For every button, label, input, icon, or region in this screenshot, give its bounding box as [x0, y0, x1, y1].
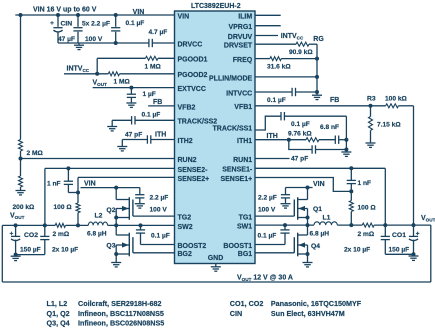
- wire VPRG1 stub: [255, 25, 281, 27]
- svg-text:6.8 µH: 6.8 µH: [310, 231, 330, 238]
- label 2 Mohm: [27, 150, 44, 157]
- svg-text:Q2: Q2: [106, 207, 115, 214]
- transistor Q3 (bottom MOSFET left phase): [114, 225, 133, 262]
- svg-text:TRACK/SS1: TRACK/SS1: [213, 125, 253, 132]
- junction CO2: [14, 223, 18, 227]
- label 1 uF: [143, 91, 156, 98]
- label 1 Mohm PGOOD2: [114, 78, 131, 85]
- label RG: [313, 36, 324, 43]
- wire PLLIN/MODE: [255, 76, 317, 78]
- svg-text:6.8 µH: 6.8 µH: [87, 231, 107, 238]
- ground right output caps: [409, 256, 419, 260]
- svg-text:1 µF: 1 µF: [143, 91, 156, 98]
- capacitor 0.1uF BOOST2 lead: [140, 225, 142, 244]
- junction VIN right Q1 drain: [306, 186, 310, 190]
- junction SW1 boost cap: [283, 223, 287, 227]
- label note CIN part: [271, 309, 345, 318]
- resistor 100 ohm right lead: [350, 191, 352, 200]
- label 9.76 kohm: [288, 130, 312, 137]
- svg-text:9.76 kΩ: 9.76 kΩ: [288, 130, 312, 137]
- resistor 1 Mohm PGOOD1: [146, 56, 159, 60]
- junction on VIN rail at 0.1uF: [114, 13, 118, 17]
- junction EXTVCC cap: [129, 86, 133, 90]
- svg-text:BG2: BG2: [178, 251, 193, 258]
- svg-text:Infineon, BSC117N08NS5: Infineon, BSC117N08NS5: [78, 309, 164, 318]
- svg-text:BOOST1: BOOST1: [223, 243, 252, 250]
- svg-text:1 MΩ: 1 MΩ: [114, 78, 131, 85]
- svg-text:Sun Elect, 63HVH47M: Sun Elect, 63HVH47M: [271, 309, 345, 318]
- capacitor 2.2uF left lead: [139, 188, 141, 204]
- label 90.9 kohm: [289, 49, 313, 56]
- resistor 1 Mohm PGOOD2: [108, 72, 119, 76]
- label L2 value 6.8 uH: [87, 231, 107, 238]
- svg-text:VIN 16 V up to 60 V: VIN 16 V up to 60 V: [33, 7, 97, 14]
- ground Q3 source: [111, 263, 121, 267]
- wire SENSE1- long: [255, 167, 385, 169]
- label CIN value 47 uF: [58, 36, 75, 43]
- svg-text:47 pF: 47 pF: [291, 155, 308, 162]
- label CO1: [392, 232, 406, 239]
- label VOUT net EXTVCC: [93, 79, 108, 87]
- wire ITH1: [255, 139, 306, 141]
- junction SENSE1 filter: [349, 189, 353, 193]
- label VOUT 12V 30A: [237, 274, 293, 282]
- label note Q1 Q2 part: [78, 309, 164, 318]
- label note CO1 CO2: [230, 299, 264, 308]
- junction VIN left Q2 drain: [114, 186, 118, 190]
- ground divider: [16, 191, 26, 195]
- svg-text:2x 10 µF: 2x 10 µF: [52, 246, 78, 253]
- svg-text:2 mΩ: 2 mΩ: [358, 231, 375, 238]
- transistor Q2 (top MOSFET left phase): [114, 197, 133, 225]
- svg-text:90.9 kΩ: 90.9 kΩ: [289, 49, 313, 56]
- resistor 9.76 kohm: [306, 138, 319, 142]
- junction ITH1 node: [287, 138, 291, 142]
- pin label VIN: [178, 13, 190, 20]
- label 200 kohm: [13, 204, 36, 211]
- capacitor 0.1uF BOOST1 lead: [284, 225, 286, 244]
- resistor R3 100 kohm: [386, 104, 399, 108]
- wire TRACK/SS2 gnd: [111, 120, 113, 126]
- wire DRVSET: [255, 43, 317, 45]
- wire sense to output corner: [374, 224, 431, 226]
- wire SW2: [108, 224, 175, 226]
- junction rail PLLIN: [315, 75, 319, 79]
- svg-text:4.7 µF: 4.7 µF: [149, 29, 168, 36]
- label L1: [323, 215, 331, 222]
- label CO2 plus: [10, 230, 14, 237]
- svg-text:2 MΩ: 2 MΩ: [27, 150, 44, 157]
- pin label RUN1: [233, 157, 252, 164]
- label 0.1 uF BOOST1: [258, 233, 277, 240]
- junction SW2 Q2 source: [114, 223, 118, 227]
- svg-text:100 Ω: 100 Ω: [54, 204, 73, 211]
- label note L1 L2: [47, 299, 68, 308]
- capacitor 1uF EXTVCC lead: [130, 88, 132, 103]
- wire SENSE1- down to output: [384, 168, 386, 225]
- pin label BG1: [238, 251, 253, 258]
- resistor 2 mohm right sense: [362, 223, 374, 227]
- label VIN 16 V up to 60 V: [33, 7, 97, 14]
- label note Q3 Q4: [47, 319, 70, 328]
- pin label SW2: [178, 224, 193, 231]
- svg-text:150 µF: 150 µF: [20, 246, 41, 253]
- capacitor 5x 2.2uF plates: [73, 28, 82, 31]
- svg-text:+: +: [10, 230, 14, 237]
- svg-text:INTVCC: INTVCC: [226, 90, 252, 97]
- wire output bus right drop: [430, 225, 432, 282]
- wire L1 to sense: [337, 224, 362, 226]
- label L2: [95, 212, 103, 219]
- junction RUN2 node: [19, 157, 23, 161]
- wire 100 ohm left to SW node: [77, 213, 79, 226]
- svg-text:VIN: VIN: [84, 181, 96, 188]
- junction 100 ohm right bottom: [349, 223, 353, 227]
- label note CO1 CO2 part: [271, 299, 362, 308]
- label Q1: [313, 206, 322, 213]
- svg-text:31.6 kΩ: 31.6 kΩ: [267, 63, 291, 70]
- wire Q1 drain: [307, 188, 309, 200]
- svg-text:FB: FB: [153, 99, 162, 106]
- svg-text:VIN: VIN: [313, 181, 325, 188]
- capacitor 2x10uF right plates: [381, 236, 390, 239]
- capacitor 2.2uF left plates: [135, 195, 144, 198]
- wire ITH2 cap: [122, 139, 174, 141]
- wire rail gnd stem: [316, 92, 318, 95]
- junction SENSE2 filter: [76, 191, 80, 195]
- label 0.1 uF VIN: [126, 20, 145, 27]
- capacitor 1uF EXTVCC plates: [127, 94, 136, 97]
- pin label EXTVCC: [178, 86, 206, 93]
- wire VIN left stage: [81, 187, 140, 189]
- label 4.7 uF: [149, 29, 168, 36]
- pin label BOOST1: [223, 243, 252, 250]
- label 100 V left: [150, 207, 168, 214]
- svg-text:+: +: [50, 20, 54, 27]
- label CO1 plus: [416, 230, 420, 237]
- wire PGOOD1 down to INTVCC stub: [96, 58, 98, 74]
- svg-text:0.1 µF: 0.1 µF: [258, 233, 277, 240]
- svg-text:L2: L2: [95, 212, 103, 219]
- svg-text:VPRG1: VPRG1: [228, 24, 252, 31]
- label 0.1 uF TRACK/SS1: [291, 121, 310, 128]
- wire ITH2 gnd: [121, 140, 123, 147]
- label VIN net left stage: [84, 181, 96, 188]
- ground EXTVCC cap: [126, 103, 136, 107]
- pin label SENSE1-: [222, 167, 253, 174]
- ground input bus: [74, 43, 84, 50]
- svg-text:Q1, Q2: Q1, Q2: [47, 309, 70, 318]
- svg-text:BOOST2: BOOST2: [178, 243, 207, 250]
- label 1 nF left: [47, 180, 61, 187]
- capacitor 0.1uF BOOST1 plates: [280, 230, 289, 233]
- transistor Q4 (bottom MOSFET right phase): [294, 225, 309, 262]
- capacitor 2x10uF left lead: [44, 225, 46, 254]
- pin label VFB2: [178, 104, 196, 111]
- resistor 2 Mohm: [19, 140, 23, 152]
- label note Q3 Q4 part: [78, 319, 164, 328]
- wire TRACK/SS2 cap: [112, 119, 174, 121]
- svg-text:Coilcraft, SER2918H-682: Coilcraft, SER2918H-682: [78, 299, 162, 308]
- svg-text:TG1: TG1: [239, 215, 253, 222]
- label ITH net right: [267, 133, 278, 140]
- capacitor 0.1uF VIN plates: [111, 28, 120, 31]
- capacitor 6.8nF: [335, 136, 338, 144]
- wire SENSE2+ down: [77, 177, 79, 203]
- label 2.2 uF left: [150, 195, 169, 202]
- svg-text:PLLIN/MODE: PLLIN/MODE: [209, 75, 252, 82]
- label Q4: [311, 243, 320, 250]
- wire BOOST1: [255, 244, 285, 246]
- label CO2 value 150 uF: [20, 246, 41, 253]
- capacitor 2.2uF right lead: [285, 188, 287, 204]
- svg-text:CO1, CO2: CO1, CO2: [230, 299, 264, 308]
- svg-text:2 mΩ: 2 mΩ: [53, 231, 70, 238]
- svg-text:100 V: 100 V: [85, 36, 103, 43]
- capacitor 4.7uF DRVCC: [149, 39, 152, 47]
- capacitor 2x10uF right lead: [384, 225, 386, 254]
- wire SENSE2+: [78, 176, 175, 178]
- capacitor 1nF right lead: [350, 168, 352, 191]
- label FB net left: [153, 99, 162, 106]
- wire comp gnd rail: [345, 116, 347, 152]
- capacitor 1nF left lead: [68, 168, 78, 192]
- wire 9.76k to 6.8nF: [319, 139, 346, 141]
- resistor FREQ 31.6 kohm: [270, 57, 281, 61]
- capacitor 47pF right: [312, 145, 315, 153]
- label VOUT left: [10, 212, 25, 220]
- capacitor 2x10uF left plates: [40, 236, 49, 239]
- capacitor 5x 2.2uF lead: [77, 15, 79, 43]
- junction left caps gnd: [14, 253, 18, 257]
- resistor 100 ohm right: [349, 201, 353, 212]
- wire TG2: [133, 215, 175, 217]
- junction rail 6.8nF: [344, 138, 348, 142]
- op-amp U1 LTC3892EUH-2 controller IC body: [175, 11, 256, 264]
- capacitor CIN 47uF lead: [57, 15, 59, 43]
- wire ILIM stub: [255, 14, 281, 16]
- label FB net right: [330, 97, 339, 104]
- svg-text:DRVUV: DRVUV: [228, 34, 253, 41]
- svg-text:7.15 kΩ: 7.15 kΩ: [377, 121, 401, 128]
- pin label DRVSET: [224, 43, 253, 50]
- wire BG2: [133, 252, 175, 254]
- label note L1 L2 part: [78, 299, 162, 308]
- label 31.6 kohm: [267, 63, 291, 70]
- pin label PGOOD1: [178, 57, 208, 64]
- wire INTVCC stub: [64, 73, 108, 75]
- label U1 part number LTC3892EUH-2: [191, 3, 241, 10]
- label CIN plus: [50, 20, 54, 27]
- label 100 ohm left: [54, 204, 73, 211]
- junction rail INTVCC: [315, 90, 319, 94]
- pin label VPRG1: [228, 24, 252, 31]
- node VIN input rail: [15, 14, 174, 16]
- label 0.1 uF BOOST2: [151, 233, 170, 240]
- ground ITH2: [117, 147, 127, 151]
- ground Q4 source: [303, 263, 313, 267]
- label ITH net left: [155, 132, 166, 139]
- svg-text:100 V: 100 V: [150, 207, 168, 214]
- pin label TG1: [239, 215, 253, 222]
- svg-text:6.8 nF: 6.8 nF: [320, 124, 339, 131]
- label 2x 10 uF left: [52, 246, 78, 253]
- svg-text:2.2 µF: 2.2 µF: [258, 195, 277, 202]
- label 47 pF left: [125, 132, 142, 139]
- svg-text:Q4: Q4: [311, 243, 320, 250]
- ground RG rail: [312, 95, 322, 99]
- junction SW1 Q1 source: [306, 223, 310, 227]
- svg-text:0.1 µF: 0.1 µF: [267, 97, 286, 104]
- wire 47pF branch: [289, 140, 347, 150]
- svg-text:VIN: VIN: [133, 9, 145, 16]
- pin label TG2: [178, 215, 192, 222]
- pin label SW1: [237, 224, 252, 231]
- svg-text:0.1 µF: 0.1 µF: [126, 20, 145, 27]
- svg-text:0.1 µF: 0.1 µF: [291, 121, 310, 128]
- pin label ILIM: [238, 14, 252, 21]
- ground 2.2uF right: [281, 204, 291, 208]
- label 1 nF right: [358, 180, 372, 187]
- label R3: [367, 95, 376, 102]
- svg-text:CO2: CO2: [24, 232, 38, 239]
- pin label VFB1: [234, 104, 252, 111]
- capacitor 2.2uF right plates: [281, 195, 290, 198]
- label 1 Mohm PGOOD1: [145, 63, 162, 70]
- wire output left: [2, 224, 88, 226]
- wire RG rail: [316, 44, 318, 92]
- capacitor CO2 plates: [11, 236, 20, 240]
- capacitor 0.1uF TRACK/SS1: [281, 112, 284, 120]
- svg-text:1 MΩ: 1 MΩ: [145, 63, 162, 70]
- wire TRACK/SS1 step: [255, 116, 281, 130]
- svg-text:ITH: ITH: [267, 133, 278, 140]
- svg-text:47 pF: 47 pF: [125, 132, 142, 139]
- capacitor 0.1uF VIN lead: [115, 15, 117, 43]
- svg-text:RUN2: RUN2: [178, 157, 197, 164]
- wire INTVCC cap: [255, 91, 317, 93]
- svg-text:TRACK/SS2: TRACK/SS2: [178, 119, 218, 126]
- wire SENSE2- down to output: [44, 168, 46, 225]
- wire input ground bus: [58, 42, 116, 44]
- svg-text:RUN1: RUN1: [233, 157, 252, 164]
- wire EXTVCC to VOUT: [93, 87, 175, 89]
- label 2 mohm right: [358, 231, 375, 238]
- capacitor 47pF ITH2: [147, 135, 150, 143]
- svg-text:+: +: [416, 230, 420, 237]
- svg-text:CIN: CIN: [230, 309, 242, 318]
- svg-text:100 V: 100 V: [258, 207, 276, 214]
- label 5x 2.2 uF: [82, 20, 110, 27]
- resistor 2 mohm left sense: [55, 223, 65, 227]
- svg-text:47 µF: 47 µF: [58, 36, 75, 43]
- resistor 200 kohm: [19, 176, 23, 187]
- pin label ITH2: [178, 138, 193, 145]
- wire FREQ: [255, 58, 317, 60]
- pin label BOOST2: [178, 243, 207, 250]
- wire PGOOD1 to 1M resistor: [97, 57, 174, 59]
- capacitor 0.1uF INTVCC: [292, 88, 295, 96]
- wire 100 ohm right to output: [350, 212, 352, 226]
- svg-text:200 kΩ: 200 kΩ: [13, 204, 36, 211]
- wire output bus left drop: [1, 225, 3, 282]
- svg-text:CO1: CO1: [392, 232, 406, 239]
- label 7.15 kohm: [377, 121, 401, 128]
- wire TG1: [255, 215, 294, 217]
- junction rail 47pF: [344, 148, 348, 152]
- pin label TRACK/SS1: [213, 125, 253, 132]
- resistor 7.15 kohm: [369, 117, 373, 131]
- pin label INTVCC: [226, 90, 252, 97]
- wire VFB2 FB stub: [148, 105, 174, 107]
- resistor RG 90.9 kohm: [296, 42, 309, 46]
- capacitor CO2 lead: [15, 225, 17, 254]
- label 2.2 uF right: [258, 195, 277, 202]
- label VOUT right: [421, 215, 435, 223]
- ground comp rail: [341, 152, 351, 156]
- svg-text:FB: FB: [330, 97, 339, 104]
- wire SW1: [255, 224, 314, 226]
- pin label PGOOD2: [178, 72, 208, 79]
- label 2x 10 uF right: [344, 246, 370, 253]
- capacitor CIN plates: [53, 28, 62, 32]
- wire right caps gnd jog: [385, 253, 413, 255]
- wire GND pin: [215, 264, 217, 267]
- pin label DRVCC: [178, 41, 203, 48]
- junction output sense1-: [383, 223, 387, 227]
- ground TRACK/SS2: [107, 127, 117, 131]
- junction on VIN rail at CIN: [56, 13, 60, 17]
- svg-text:R3: R3: [367, 95, 376, 102]
- junction rail FREQ: [315, 57, 319, 61]
- junction 2x10uF left: [43, 223, 47, 227]
- svg-text:ILIM: ILIM: [238, 14, 252, 21]
- svg-text:DRVCC: DRVCC: [178, 41, 203, 48]
- pin label SENSE2-: [178, 167, 209, 174]
- label Q2: [106, 207, 115, 214]
- svg-text:CIN: CIN: [61, 20, 73, 27]
- svg-text:Q3, Q4: Q3, Q4: [47, 319, 70, 328]
- svg-text:L1, L2: L1, L2: [47, 299, 68, 308]
- wire VIN divider upper: [20, 15, 22, 140]
- transistor Q1 (top MOSFET right phase): [294, 197, 309, 225]
- svg-text:150 µF: 150 µF: [389, 246, 410, 253]
- wire 7.15k gnd: [370, 130, 372, 143]
- wire R3 to VOUT right: [398, 106, 413, 225]
- svg-text:SW1: SW1: [237, 224, 252, 231]
- capacitor 0.1uF TRACK/SS2: [132, 116, 135, 124]
- svg-text:SENSE1-: SENSE1-: [222, 167, 253, 174]
- pin label PLLIN/MODE: [209, 75, 252, 82]
- label R3 value 100 kohm: [385, 95, 408, 102]
- junction right caps gnd: [412, 252, 416, 256]
- svg-text:Q3: Q3: [106, 242, 115, 249]
- pin label FREQ: [233, 57, 253, 64]
- junction INTVCC stub: [95, 72, 99, 76]
- label INTVCC net right: [281, 33, 304, 41]
- svg-text:Infineon, BSC026N08NS5: Infineon, BSC026N08NS5: [78, 319, 164, 328]
- wire Q2 drain: [115, 188, 117, 200]
- label VIN net near pin: [133, 9, 145, 16]
- svg-text:SENSE2+: SENSE2+: [178, 176, 210, 183]
- pin label RUN2: [178, 157, 197, 164]
- svg-text:RG: RG: [313, 36, 324, 43]
- svg-text:L1: L1: [323, 215, 331, 222]
- capacitor 1nF right plates: [347, 180, 356, 183]
- wire output bus bottom: [2, 281, 431, 283]
- label note Q1 Q2: [47, 309, 70, 318]
- junction 100 ohm left bottom: [76, 223, 80, 227]
